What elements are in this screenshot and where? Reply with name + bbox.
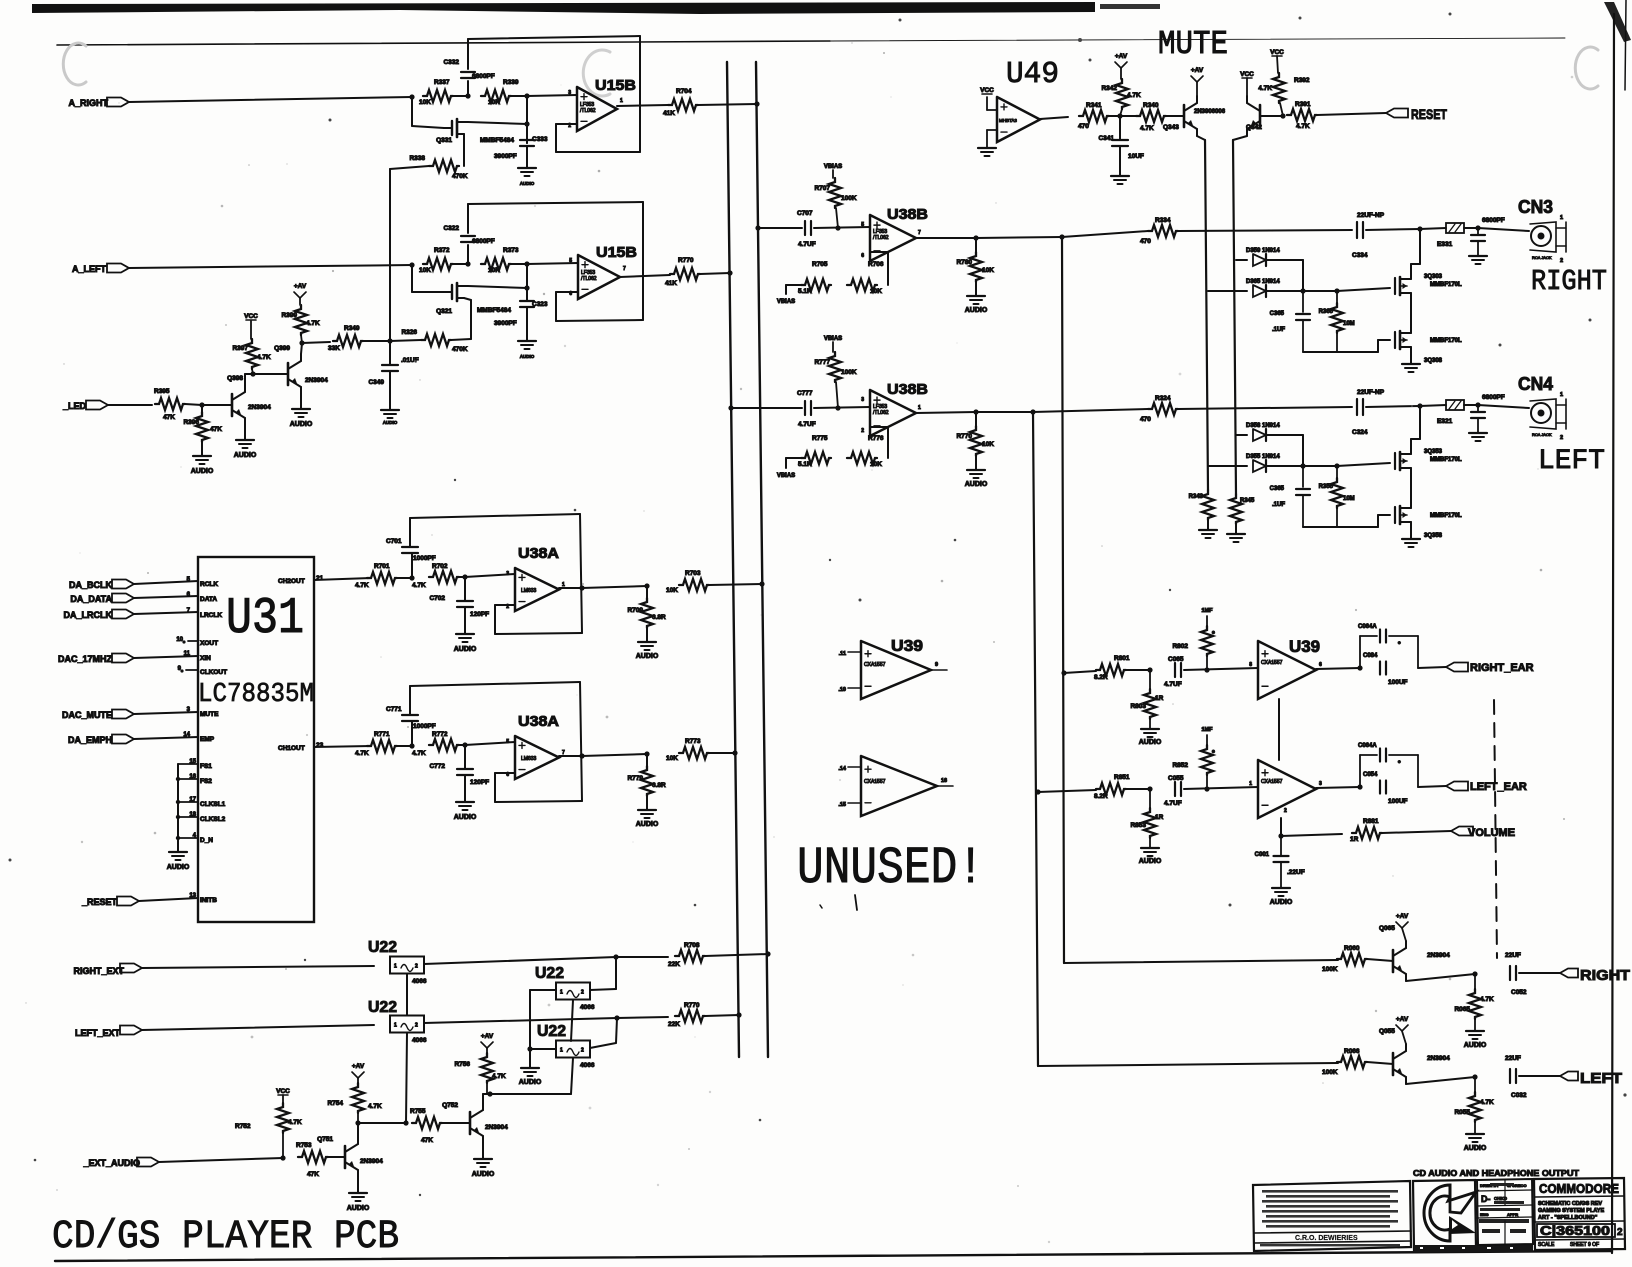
resistor R372 10K: [423, 258, 453, 270]
svg-text:DA_LRCLK: DA_LRCLK: [64, 610, 113, 620]
svg-text:1: 1: [560, 990, 563, 996]
resistor R801 8.2R: [1096, 664, 1126, 676]
resistor R373 10K: [481, 258, 511, 270]
ground below C331: [1477, 242, 1479, 256]
svg-text:4.7UF: 4.7UF: [1164, 681, 1182, 688]
capacitor C334 22UF-NP: [1356, 222, 1358, 238]
svg-text:6800PF: 6800PF: [1482, 394, 1505, 401]
svg-text:U38A: U38A: [518, 713, 559, 730]
ground below C323: [518, 340, 536, 342]
svg-text:R754: R754: [327, 1100, 343, 1107]
wire Q055 emitter to output: [1406, 1077, 1475, 1084]
svg-text:VCC: VCC: [980, 87, 994, 94]
wire R340 to Q343 base: [1166, 115, 1184, 117]
svg-text:C349: C349: [368, 379, 384, 386]
wire bus to C707: [758, 227, 802, 229]
svg-text:U22: U22: [537, 1023, 566, 1040]
capacitor C365 .1UF: [1302, 291, 1304, 312]
ground below R345: [1235, 524, 1237, 534]
svg-text:.11: .11: [839, 651, 846, 657]
svg-text:R055: R055: [1454, 1109, 1470, 1116]
svg-text:DA_EMPH: DA_EMPH: [68, 735, 112, 745]
svg-text:.1UF: .1UF: [1272, 327, 1285, 333]
feedback wire U15B-1 bottom: [556, 151, 640, 153]
ground below Q399 emitter: [300, 394, 302, 409]
svg-text:Q321: Q321: [436, 308, 452, 315]
capacitor C065 4.7UF: [1174, 663, 1176, 677]
wire R753 to Q751 base: [328, 1156, 345, 1158]
resistor R396 47K: [201, 405, 203, 412]
ground below C772: [464, 776, 466, 802]
ground below R343: [1207, 520, 1209, 530]
op-amp U38A second: [515, 736, 559, 779]
svg-text:10K: 10K: [870, 461, 882, 468]
svg-text:CLKSL1: CLKSL1: [200, 801, 226, 808]
capacitor C332 6800PF: [467, 81, 469, 96]
svg-text:R342: R342: [1101, 85, 1117, 92]
svg-text:R340: R340: [1143, 102, 1159, 109]
svg-text:U38B: U38B: [887, 381, 928, 398]
svg-text:DAC_MUTE: DAC_MUTE: [62, 710, 112, 720]
svg-text:470: 470: [1140, 416, 1151, 423]
wire Q398 collector to node: [244, 374, 246, 385]
wire gate node to mosfet Q303: [1337, 288, 1390, 291]
wire R851 to node: [1126, 788, 1150, 790]
svg-text:3: 3: [861, 397, 864, 403]
jfet Q321 MMBF5484: [444, 291, 452, 293]
svg-text:AUDIO: AUDIO: [1464, 1145, 1487, 1152]
svg-text:2: 2: [581, 1048, 584, 1054]
wire Q398 node to Q399 base: [253, 373, 288, 375]
wire R775 to vbias: [786, 457, 801, 459]
wire U22d out up to left ext row: [590, 1043, 616, 1048]
connector RIGHT_EAR: [1446, 663, 1468, 672]
svg-text:2N3904: 2N3904: [485, 1124, 508, 1131]
svg-text:4.7K: 4.7K: [1296, 123, 1310, 130]
svg-text:.1UF: .1UF: [1272, 502, 1285, 508]
svg-text:R801: R801: [1114, 655, 1130, 662]
top thin scan line: [57, 41, 830, 45]
pin 10 XOUT stub: [188, 640, 198, 642]
capacitor C064A: [1359, 636, 1361, 668]
svg-text:47K: 47K: [210, 426, 222, 433]
wire C032 to LEFT connector: [1519, 1075, 1560, 1077]
capacitor C084 100UF: [1379, 662, 1381, 675]
svg-text:3Q303: 3Q303: [1424, 274, 1443, 280]
svg-text:3Q353: 3Q353: [1424, 449, 1443, 455]
svg-text:*: *: [1398, 641, 1401, 648]
wire R391 to RESET: [1317, 113, 1386, 115]
svg-text:AUDIO: AUDIO: [519, 1079, 542, 1086]
svg-text:CN3: CN3: [1518, 197, 1553, 217]
svg-text:100K: 100K: [841, 195, 857, 202]
wire R395 to node: [185, 404, 202, 405]
node wire to Q321 gate: [411, 265, 413, 292]
wire node to Q398 base: [202, 404, 232, 406]
svg-text:/TL062: /TL062: [873, 235, 889, 241]
wire Q331 source to R338: [463, 134, 465, 166]
svg-text:47K: 47K: [163, 414, 175, 421]
wire mosfet chain to node: [1410, 264, 1412, 273]
svg-text:10K: 10K: [419, 99, 431, 106]
svg-text:2: 2: [1284, 808, 1287, 814]
svg-text:2N3904: 2N3904: [360, 1158, 383, 1165]
ferrite E331: [1420, 228, 1446, 229]
svg-text:100K: 100K: [1322, 966, 1338, 973]
svg-text:C032: C032: [1511, 1092, 1527, 1099]
svg-text:RCLK: RCLK: [200, 581, 218, 588]
svg-text:10K: 10K: [870, 288, 882, 295]
wire gate node to mosfet Q353: [1337, 463, 1390, 466]
svg-text:RIGHT_EAR: RIGHT_EAR: [1470, 662, 1534, 674]
svg-text:AUDIO: AUDIO: [1139, 739, 1162, 746]
svg-text:R345: R345: [1240, 498, 1255, 504]
resistor R391 4.7K: [1287, 109, 1317, 121]
svg-text:RCA JACK: RCA JACK: [1532, 432, 1552, 437]
resistor R066 100K: [1337, 1056, 1367, 1068]
svg-text:R779: R779: [627, 775, 643, 782]
wire R399 to Q399 collector node: [301, 335, 302, 343]
ground below Q308: [1410, 353, 1412, 364]
svg-text:AUDIO: AUDIO: [383, 420, 398, 425]
pin 17 CLKSL1: [178, 801, 198, 803]
svg-text:5: 5: [506, 739, 509, 745]
svg-text:RESET: RESET: [1411, 106, 1447, 122]
capacitor C032 22UF: [1509, 1069, 1511, 1083]
svg-text:3Q358: 3Q358: [1424, 533, 1443, 539]
capacitor C064A second: [1359, 755, 1361, 787]
speck marks: [329, 119, 332, 122]
transistor Q399 2N3904: [287, 363, 290, 385]
svg-text:10K: 10K: [982, 441, 994, 448]
svg-text:2: 2: [506, 604, 509, 610]
op-amp U39 right ear: [1258, 641, 1316, 699]
transistor Q065 2N3904: [1392, 950, 1395, 972]
svg-text:R770: R770: [684, 1002, 700, 1009]
svg-text:U31: U31: [226, 591, 304, 648]
svg-text:4.7K: 4.7K: [355, 582, 369, 589]
title block logo box: [1413, 1180, 1476, 1250]
svg-text:LC78835M: LC78835M: [198, 680, 314, 710]
svg-text:D365 1N914: D365 1N914: [1246, 279, 1280, 285]
svg-text:*: *: [1398, 760, 1401, 767]
wire Q321 drain to node: [468, 286, 527, 288]
svg-text:4.7K: 4.7K: [355, 750, 369, 757]
svg-text:3: 3: [1319, 781, 1322, 787]
svg-text:CHKD: CHKD: [1494, 1196, 1508, 1201]
resistor R780 10K vertical: [975, 238, 977, 252]
svg-text:VCC: VCC: [1240, 71, 1254, 78]
ground below R779: [646, 796, 648, 810]
wire U22b to R770r: [424, 1018, 617, 1023]
svg-text:R702: R702: [432, 563, 448, 570]
feedback box U38A-2 right: [580, 682, 582, 801]
resistor R770 41K: [670, 268, 700, 280]
vcc above U49 plus input: [987, 109, 997, 111]
svg-text:C324: C324: [1352, 429, 1368, 436]
svg-text:/TL062: /TL062: [873, 410, 889, 416]
svg-text:LM833: LM833: [521, 756, 537, 762]
wire R060 to Q065 base: [1367, 959, 1393, 961]
svg-text:R341: R341: [1086, 102, 1102, 109]
svg-text:EMP: EMP: [200, 736, 215, 743]
resistor R775 5.1K: [801, 452, 831, 464]
svg-text:4.7K: 4.7K: [257, 354, 271, 361]
resistor R776 10K: [847, 452, 877, 464]
svg-text:17: 17: [189, 797, 196, 803]
svg-text:.10: .10: [838, 687, 846, 693]
feedback path U38B-2: [887, 427, 889, 458]
svg-text:_EXT_AUDIO: _EXT_AUDIO: [82, 1158, 140, 1168]
op-amp U15B second: [578, 255, 620, 299]
resistor R707 100K: [829, 178, 841, 208]
svg-text:470K: 470K: [452, 173, 468, 180]
svg-text:C707: C707: [797, 210, 813, 217]
svg-text:4.7K: 4.7K: [368, 1103, 382, 1110]
svg-text:R701: R701: [374, 563, 390, 570]
diode D359 1N914: [1236, 259, 1247, 261]
svg-text:R355: R355: [1319, 484, 1334, 490]
svg-text:Q342: Q342: [1246, 124, 1262, 131]
resistor R773 10K: [679, 747, 709, 759]
svg-text:MUTE: MUTE: [1158, 26, 1228, 63]
svg-text:R334: R334: [1155, 217, 1171, 224]
feedback wire U15B-1 right: [639, 36, 641, 152]
wire R324 to C324: [1178, 407, 1352, 409]
op-amp U39 left ear: [1258, 760, 1316, 818]
svg-text:2: 2: [415, 964, 418, 970]
svg-text:1: 1: [620, 98, 623, 104]
wire C052 to RIGHT connector: [1519, 972, 1560, 974]
feedback wire U15B-2 top: [468, 202, 643, 204]
svg-text:VCC: VCC: [276, 1088, 290, 1095]
wire CH2OUT to R701: [314, 578, 371, 580]
wire feed to R066: [1038, 1063, 1338, 1066]
svg-text:6.8R: 6.8R: [652, 614, 666, 621]
svg-text:R852: R852: [1172, 762, 1188, 769]
svg-text:MMBF5484: MMBF5484: [477, 307, 511, 314]
svg-text:2: 2: [581, 990, 584, 996]
op-amp U39 unused first: [861, 641, 931, 699]
svg-text:4.7K: 4.7K: [1258, 85, 1272, 92]
connector DA_BCLK: [112, 580, 134, 589]
svg-text:INITB: INITB: [200, 897, 217, 904]
svg-text:C772: C772: [429, 763, 445, 770]
svg-text:CXA1557: CXA1557: [1261, 779, 1283, 785]
wire to CN3: [1478, 228, 1529, 231]
svg-text:7: 7: [918, 230, 921, 236]
svg-text:10K: 10K: [666, 755, 678, 762]
wire R801 to node: [1126, 669, 1150, 671]
dashed boundary line: [1494, 700, 1497, 958]
svg-text:.15: .15: [838, 802, 846, 808]
wire A_LEFT to R372: [129, 265, 412, 268]
resistor R755 47K: [412, 1117, 442, 1129]
capacitor C368 .1UF: [1302, 466, 1304, 487]
capacitor C322 6800PF: [467, 245, 469, 264]
svg-text:R326: R326: [401, 329, 417, 336]
svg-text:1: 1: [1560, 215, 1563, 221]
resistor R397 4.7K: [250, 321, 252, 339]
svg-text:10UF: 10UF: [1128, 153, 1144, 160]
svg-text:10K: 10K: [982, 267, 994, 274]
svg-text:.14: .14: [838, 766, 847, 772]
svg-text:AUDIO: AUDIO: [347, 1205, 370, 1212]
svg-text:R373: R373: [503, 247, 519, 254]
svg-text:+AV: +AV: [481, 1033, 494, 1040]
wire U22a to R708: [424, 957, 616, 964]
svg-text:D359 1N914: D359 1N914: [1246, 248, 1280, 254]
svg-text:XOUT: XOUT: [200, 640, 218, 647]
wire R770r to bus: [705, 1015, 739, 1016]
resistor R338 470K: [429, 160, 459, 172]
mosfet Q308 MMBF170L: [1394, 332, 1396, 348]
resistor R060 100K: [1337, 953, 1367, 965]
wire R337 to node: [453, 95, 468, 97]
svg-text:RCA JACK: RCA JACK: [1532, 255, 1552, 260]
svg-text:MHBTA3: MHBTA3: [999, 118, 1017, 123]
svg-text:SHEET 9 OF: SHEET 9 OF: [1570, 1242, 1599, 1248]
wire bottom to Q358 gate: [1303, 526, 1378, 528]
page top scanner bar: [32, 2, 1095, 14]
svg-text:4066: 4066: [580, 1004, 595, 1011]
svg-text:U22: U22: [368, 999, 397, 1016]
svg-text:FS1: FS1: [200, 763, 212, 770]
wire R704 to bus: [698, 104, 757, 105]
wire R755 to Q752 base: [442, 1122, 470, 1124]
feedback box U38A-1 top: [410, 514, 580, 518]
svg-text:10K: 10K: [419, 267, 431, 274]
wire U22d in from left: [530, 1048, 556, 1050]
ground below C341: [1119, 147, 1121, 176]
resistor R065 4.7K vertical: [1474, 974, 1476, 989]
wire R702 to node: [459, 576, 465, 578]
svg-text:RIGHT: RIGHT: [1580, 967, 1630, 984]
svg-text:AUDIO: AUDIO: [965, 307, 988, 314]
capacitor C331 6800PF: [1464, 227, 1478, 229]
svg-text:CH1OUT: CH1OUT: [278, 745, 305, 752]
wire U38B-1 output: [916, 237, 976, 239]
resistor R851 8.2R: [1096, 783, 1126, 795]
capacitor C349 .01UF: [389, 341, 391, 364]
svg-text:Q398: Q398: [227, 375, 243, 382]
svg-text:C|365100: C|365100: [1540, 1224, 1610, 1238]
wire CH1OUT to R771: [314, 746, 371, 747]
resistor R334 470: [1148, 225, 1178, 237]
svg-text:9: 9: [935, 662, 938, 668]
resistor R705 5.1K: [801, 279, 831, 291]
svg-text:4.7UF: 4.7UF: [798, 421, 816, 428]
svg-text:C323: C323: [532, 301, 548, 308]
resistor R701 4.7K: [367, 572, 397, 584]
svg-text:Q055: Q055: [1379, 1028, 1395, 1035]
resistor R802 1M vertical: [1206, 656, 1208, 670]
svg-text:21: 21: [316, 575, 324, 582]
svg-text:LEFT: LEFT: [1580, 1070, 1622, 1087]
resistor R803 1R vertical: [1149, 670, 1151, 689]
transistor Q055 2N3904: [1392, 1053, 1395, 1075]
svg-text:AUDIO: AUDIO: [454, 646, 477, 653]
feedback box U38A-2 bottom: [495, 801, 582, 802]
wire R338 left corner down: [390, 166, 429, 169]
wire U38B-2 output: [916, 412, 976, 413]
wire Q321 source down: [464, 298, 471, 300]
svg-text:R771: R771: [374, 731, 390, 738]
svg-text:C332: C332: [443, 59, 459, 66]
emitter rail Q342 down: [1233, 136, 1247, 140]
diode D355 1N914: [1208, 465, 1247, 467]
connector VOLUME: [1451, 827, 1473, 836]
svg-text:22K: 22K: [668, 961, 680, 968]
svg-text:47K: 47K: [421, 1137, 433, 1144]
svg-text:4066: 4066: [412, 1037, 427, 1044]
mosfet Q358 MMBF170L: [1394, 507, 1396, 523]
feedback box U38A-1 bottom: [495, 633, 582, 634]
wire C365 R365 bottom to Q308 gate: [1303, 351, 1378, 353]
resistor R777 100K: [829, 352, 841, 382]
resistor R771 4.7K: [367, 740, 397, 752]
vertical feed right channel: [1062, 237, 1064, 963]
svg-text:3900PF: 3900PF: [494, 153, 517, 160]
resistor R770r 22K: [675, 1010, 705, 1022]
svg-text:+AV: +AV: [1191, 67, 1204, 74]
svg-text:8.2R: 8.2R: [1094, 793, 1108, 800]
connector DA_EMPH: [112, 735, 134, 744]
svg-text:7: 7: [623, 266, 626, 272]
svg-text:4.7K: 4.7K: [1140, 125, 1154, 132]
svg-text:R704: R704: [676, 88, 692, 95]
switch U22d 4066: [556, 1041, 590, 1058]
wire U15B-1 output: [617, 105, 668, 106]
resistor R399 4.7K: [299, 298, 301, 305]
wire mosfet chain 2 to node: [1410, 439, 1412, 448]
op-amp U38B second: [870, 390, 916, 436]
pin 15 FS1: [178, 763, 198, 765]
svg-text:+AV: +AV: [294, 283, 307, 290]
diode D365 1N914: [1208, 290, 1247, 292]
wire U38A-1 output: [559, 587, 582, 589]
wire R066 to Q055 base: [1367, 1062, 1393, 1064]
capacitor C333 3900PF: [526, 139, 528, 143]
svg-text:2N3906006: 2N3906006: [1194, 109, 1226, 115]
svg-text:10M: 10M: [1343, 496, 1355, 502]
capacitor C771 1000PF: [411, 722, 413, 746]
connector RESET: [1386, 109, 1408, 118]
ground below C349: [389, 372, 391, 410]
svg-text:2: 2: [568, 123, 571, 129]
svg-text:1MF: 1MF: [1202, 727, 1214, 733]
svg-text:3900PF: 3900PF: [494, 320, 517, 327]
svg-text:U39: U39: [891, 638, 923, 655]
svg-text:R324: R324: [1155, 395, 1171, 402]
ground below U49 minus input: [987, 129, 997, 131]
capacitor C052 22UF: [1509, 966, 1511, 980]
wire C707 to op-amp: [814, 227, 870, 228]
svg-text:AUDIO: AUDIO: [636, 653, 659, 660]
svg-text:R755: R755: [410, 1108, 426, 1115]
svg-text:VCC: VCC: [244, 313, 258, 320]
svg-text:_LED: _LED: [62, 401, 87, 411]
svg-text:10K: 10K: [666, 587, 678, 594]
wire U22c in left and down: [530, 989, 556, 991]
wire Q065 emitter to output: [1406, 974, 1475, 981]
resistor R706 10K: [847, 279, 877, 291]
wire R772 to node: [459, 744, 465, 746]
svg-text:CD AUDIO AND HEADPHONE OUTPUT: CD AUDIO AND HEADPHONE OUTPUT: [1413, 1168, 1580, 1178]
svg-text:6800PF: 6800PF: [472, 73, 495, 80]
ground below R803: [1149, 719, 1151, 729]
svg-text:/TL062: /TL062: [580, 108, 596, 114]
